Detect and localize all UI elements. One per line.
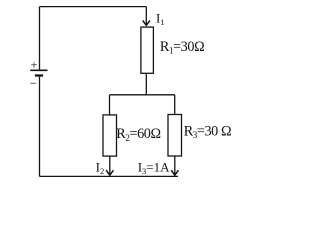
- resistor R3: [168, 115, 182, 157]
- arrowhead current I3: [171, 170, 178, 175]
- svg-text:I1: I1: [156, 10, 165, 27]
- svg-text:+: +: [31, 58, 38, 72]
- wire R3 bottom to bottom bus: [174, 156, 176, 175]
- arrowhead current I1: [143, 21, 150, 26]
- wire R1 bottom to junction bar: [145, 73, 147, 95]
- svg-text:R2=60Ω: R2=60Ω: [116, 126, 160, 143]
- battery B1: [30, 70, 47, 75]
- arrowhead current I2: [106, 170, 113, 175]
- wire junction bar to R3: [174, 95, 176, 115]
- wire top bus: [40, 6, 147, 8]
- wire junction bar: [110, 94, 175, 96]
- svg-text:−: −: [30, 76, 37, 91]
- wire left upper (battery + lead): [39, 7, 41, 70]
- wire bottom bus: [40, 175, 179, 177]
- wire left lower (battery - lead): [39, 77, 41, 177]
- wire junction bar to R2: [109, 95, 111, 115]
- svg-text:R3=30 Ω: R3=30 Ω: [184, 123, 231, 140]
- svg-text:I2: I2: [96, 160, 105, 177]
- wire R1 branch down from top bus: [145, 7, 147, 26]
- wire R2 bottom to bottom bus: [109, 156, 111, 175]
- svg-text:R1=30Ω: R1=30Ω: [160, 39, 204, 56]
- resistor R1: [141, 27, 154, 73]
- resistor R2: [103, 115, 117, 156]
- svg-text:I3=1A: I3=1A: [138, 160, 170, 177]
